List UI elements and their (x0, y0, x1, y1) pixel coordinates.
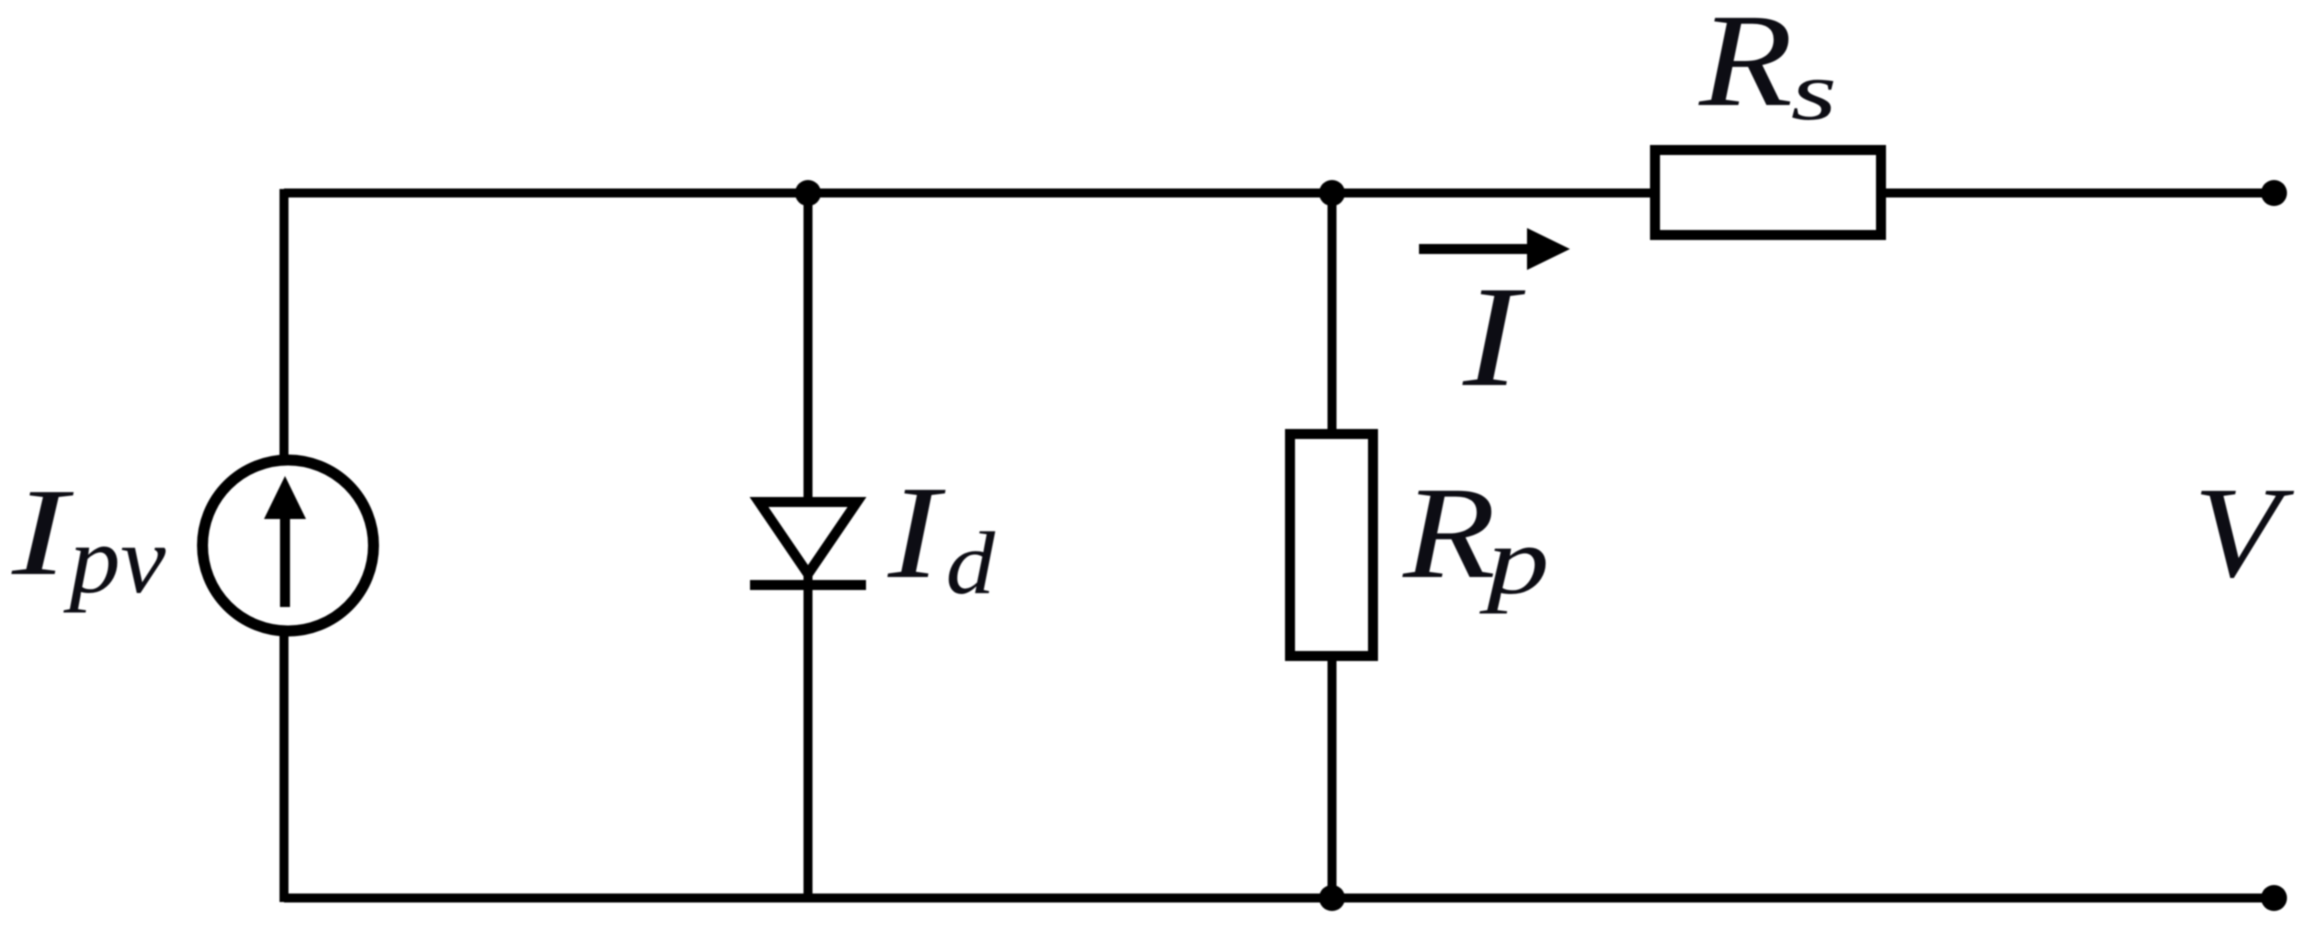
svg-text:pv: pv (63, 508, 165, 614)
node C bottom Rp junction (1319, 885, 1345, 911)
diode D1 (759, 502, 857, 574)
svg-text:p: p (1479, 509, 1550, 615)
node terminal minus (2261, 885, 2287, 911)
arrow current I (1419, 244, 1532, 254)
node A top diode junction (795, 180, 821, 206)
wire diode branch upper (804, 193, 813, 503)
svg-text:R: R (1698, 0, 1793, 135)
svg-text:I: I (887, 459, 946, 607)
node terminal plus (2261, 180, 2287, 206)
svg-text:I: I (1462, 257, 1526, 417)
svg-text:V: V (2194, 461, 2295, 604)
svg-text:d: d (946, 514, 996, 613)
resistor Rp (1290, 434, 1373, 656)
resistor Rs (1655, 150, 1881, 235)
wire diode branch lower (804, 574, 813, 898)
svg-text:I: I (11, 462, 74, 601)
wire top rail (284, 189, 2274, 198)
wire bottom rail (284, 894, 2274, 903)
node B top Rp junction (1319, 180, 1345, 206)
svg-text:R: R (1402, 460, 1496, 606)
svg-text:s: s (1791, 46, 1837, 138)
wire left branch (280, 189, 289, 902)
current source Ipv (203, 460, 374, 631)
wire Rp branch (1328, 193, 1337, 898)
